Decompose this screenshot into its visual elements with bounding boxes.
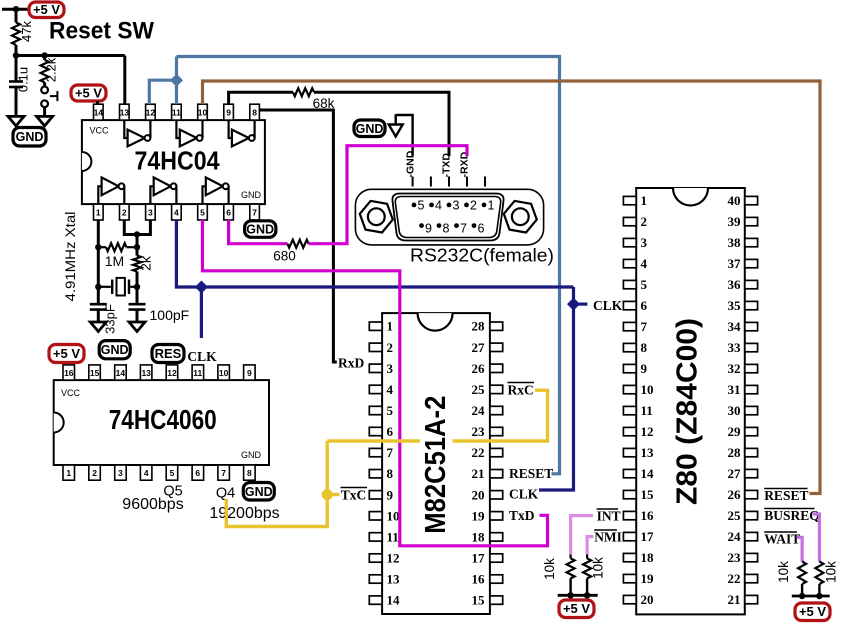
wire U1 pin1 down: [97, 220, 100, 304]
pin 6 U1 bottom: [224, 204, 234, 220]
ground GND label (U1 pin7): [245, 221, 276, 238]
pin 38 U4 right: [728, 235, 758, 250]
pin 3 U4 left: [623, 235, 647, 250]
ground triangle (33pF): [90, 322, 106, 332]
wire U1 pin8 to U3 RxD: [259, 110, 336, 362]
pin 13 U4 left: [623, 445, 654, 460]
pin 28 U3 right: [472, 319, 503, 334]
pin 20 U3 right: [472, 487, 503, 502]
pin 27 U4 right: [728, 466, 758, 481]
cpu U4 Z80 body: [636, 188, 745, 614]
svg-text:100pF: 100pF: [150, 307, 190, 323]
inverter U1F (5-6): [203, 177, 229, 204]
wire magenta U1 pin6 to 680: [229, 220, 288, 244]
text RESET (U4 pin26): [764, 488, 808, 503]
resistor 10k (INT): [542, 555, 575, 580]
wire 10k WAIT to +5V bar: [801, 584, 803, 596]
svg-text:9: 9: [247, 368, 252, 378]
svg-text:GND: GND: [245, 485, 273, 499]
pin 21 U4 right: [728, 592, 758, 607]
svg-text:1: 1: [66, 468, 71, 478]
pin 28 U4 right: [728, 445, 758, 460]
svg-text:+5 V: +5 V: [563, 601, 590, 616]
svg-text:9600bps: 9600bps: [122, 496, 183, 513]
svg-text:10: 10: [198, 108, 208, 118]
svg-text:7: 7: [641, 319, 648, 334]
connector J1 D-shell: [392, 194, 503, 241]
pin 4 U2 bottom: [140, 465, 152, 480]
svg-text:2: 2: [470, 199, 477, 213]
svg-text:5: 5: [641, 277, 648, 292]
wire clock osc (blue) U1 pin11 up: [175, 57, 178, 105]
pin 11 U1 top: [172, 104, 182, 120]
ground GND label (xtal caps): [99, 341, 130, 359]
svg-text:14: 14: [94, 108, 104, 118]
pin 16 U4 left: [623, 508, 654, 523]
connector J1 pin 1: [482, 199, 495, 213]
pin 10 U4 left: [623, 382, 653, 397]
text TxC (U3 pin9): [341, 488, 368, 503]
pin 26 U3 right: [472, 361, 503, 376]
text U1 VCC: [90, 126, 110, 136]
node pin1-xtal junction: [95, 284, 101, 290]
pin 8 U2 bottom: [244, 465, 256, 480]
svg-text:8: 8: [247, 468, 252, 478]
text RxC (U3 pin25): [508, 383, 535, 398]
power +5V label (U2 VCC): [49, 345, 84, 363]
svg-text:10: 10: [641, 382, 654, 397]
svg-text:21: 21: [472, 466, 485, 481]
svg-text:6: 6: [478, 222, 485, 236]
pin 15 U2 top: [89, 365, 101, 380]
pin 19 U3 right: [472, 508, 503, 523]
wire 100pF to gnd: [136, 310, 139, 322]
pin 14 U1 top: [94, 104, 104, 120]
pin 5 U2 bottom: [166, 465, 178, 480]
svg-text:37: 37: [728, 256, 742, 271]
svg-text:+5 V: +5 V: [75, 86, 102, 101]
svg-text:11: 11: [387, 529, 399, 544]
text CLK (U4 pin6): [593, 298, 623, 313]
node NMI bar junction: [584, 592, 590, 598]
connector J1 pin 2: [464, 199, 477, 213]
pin 7 U4 left: [623, 319, 647, 334]
svg-text:9: 9: [387, 487, 394, 502]
connector J1 outer shell: [355, 189, 543, 245]
svg-text:8: 8: [387, 466, 394, 481]
pin 1 U3 left: [369, 319, 393, 334]
svg-text:19200bps: 19200bps: [209, 505, 279, 522]
svg-text:24: 24: [472, 403, 486, 418]
svg-text:-TXD: -TXD: [441, 153, 453, 178]
wire brown U1 pin10 to U4 RESET: [203, 81, 821, 494]
text RxD (U3 pin3): [338, 356, 364, 371]
svg-text:RESET: RESET: [509, 466, 553, 481]
pin 11 U2 top: [192, 365, 204, 380]
svg-text:6: 6: [387, 424, 394, 439]
svg-text:19: 19: [472, 508, 486, 523]
pin 22 U3 right: [472, 445, 503, 460]
svg-text:31: 31: [728, 382, 741, 397]
svg-text:CLK: CLK: [593, 298, 623, 313]
inverter U1E (3-4): [150, 177, 176, 204]
svg-text:39: 39: [728, 214, 742, 229]
wire clock osc output (blue) U1 pin12: [149, 80, 176, 104]
pin 6 U4 left: [623, 298, 647, 313]
svg-text:27: 27: [728, 466, 742, 481]
svg-text:20: 20: [641, 592, 654, 607]
svg-text:7: 7: [252, 208, 257, 218]
pin 26 U4 right: [728, 487, 758, 502]
svg-text:GND: GND: [101, 343, 129, 357]
inverter U1C (9-8): [229, 120, 255, 146]
pin 9 U3 left: [369, 487, 393, 502]
pin 2 U3 left: [369, 340, 393, 355]
pin 7 U2 bottom: [218, 465, 230, 480]
wire 33pF to gnd: [97, 310, 100, 322]
svg-text:3: 3: [387, 361, 394, 376]
svg-text:27: 27: [472, 340, 486, 355]
node WAIT bar junction: [799, 593, 805, 599]
svg-text:4: 4: [387, 382, 394, 397]
svg-text:9: 9: [425, 222, 432, 236]
text TxD (U3 pin19): [509, 508, 535, 523]
svg-text:22: 22: [472, 445, 485, 460]
pin 4 U4 left: [623, 256, 647, 271]
connector J1 tick x449: [448, 177, 450, 187]
counter U2 74HC4060 body: [54, 380, 269, 465]
pin 6 U3 left: [369, 424, 393, 439]
pin 23 U4 right: [728, 550, 758, 565]
wire 100pF top lead: [136, 287, 139, 304]
pin 12 U3 left: [369, 551, 399, 566]
svg-text:10: 10: [219, 368, 229, 378]
svg-text:0.1u: 0.1u: [16, 67, 31, 92]
wire pink U4 NMI pullup: [587, 537, 593, 555]
connector J1 pin 7: [454, 222, 467, 236]
node pin1-1M junction: [95, 244, 101, 250]
pin 9 U2 top: [244, 365, 256, 380]
svg-text:GND: GND: [16, 130, 44, 144]
wire violet U4 BUSREQ pullup: [813, 514, 819, 562]
svg-text:4.91MHz Xtal: 4.91MHz Xtal: [63, 212, 78, 302]
pin 8 U4 left: [623, 340, 647, 355]
resistor 10k (NMI): [583, 555, 605, 579]
svg-text:NMI: NMI: [594, 530, 622, 545]
svg-text:35: 35: [728, 298, 742, 313]
pin 25 U4 right: [728, 508, 758, 523]
svg-text:20: 20: [472, 487, 485, 502]
svg-text:12: 12: [167, 368, 177, 378]
svg-text:1: 1: [96, 208, 101, 218]
svg-text:4: 4: [144, 468, 149, 478]
pin 1 U1 bottom: [94, 204, 104, 220]
pin 13 U1 top: [120, 104, 130, 120]
pin 18 U3 right: [472, 529, 503, 544]
pin 24 U4 right: [728, 529, 758, 544]
pin 5 U3 left: [369, 403, 393, 418]
svg-text:CLK: CLK: [187, 349, 217, 364]
pin 31 U4 right: [728, 382, 758, 397]
svg-text:12: 12: [146, 108, 156, 118]
svg-text:+5 V: +5 V: [53, 346, 80, 361]
svg-text:8: 8: [443, 222, 450, 236]
connector J1 tick x485: [484, 177, 486, 187]
svg-text:GND: GND: [241, 450, 262, 460]
svg-text:10: 10: [387, 508, 400, 523]
ground triangle (100pF): [129, 322, 145, 332]
svg-text:29: 29: [728, 424, 742, 439]
svg-text:TxC: TxC: [341, 488, 367, 503]
svg-text:10k: 10k: [776, 561, 791, 583]
svg-text:4: 4: [435, 199, 442, 213]
resistor 1M: [98, 243, 137, 269]
wire navy to U2 CLK: [200, 287, 203, 338]
svg-text:7: 7: [387, 445, 394, 460]
wire yellow stub to U3 TxC: [327, 493, 339, 496]
wire navy CLK from U1 pin4: [176, 220, 573, 287]
node pin2/3 junction: [134, 231, 140, 237]
pin 20 U4 left: [623, 592, 653, 607]
pin 5 U4 left: [623, 277, 647, 292]
wire reset to 74HC04 pin13: [123, 56, 126, 105]
label RES (U2 reset): [152, 345, 184, 363]
wire yellow to U3 RxC (right seg): [453, 390, 548, 441]
wire violet U4 WAIT pullup: [797, 537, 803, 561]
node yellow junction TxC: [322, 489, 333, 500]
svg-text:9: 9: [641, 361, 648, 376]
svg-text:13: 13: [387, 572, 401, 587]
svg-text:12: 12: [641, 424, 654, 439]
text Q4 label: [216, 486, 235, 502]
svg-text:+5 V: +5 V: [33, 2, 60, 17]
svg-text:7: 7: [460, 222, 467, 236]
text Reset SW: [49, 18, 154, 45]
resistor 68k: [293, 88, 335, 111]
svg-text:CLK: CLK: [509, 487, 539, 502]
pin 1 U2 bottom: [63, 465, 75, 480]
svg-text:21: 21: [728, 592, 741, 607]
wire 47k bottom lead: [15, 45, 18, 56]
wire 47k top lead: [15, 9, 18, 22]
connector J1 left screw nut: [360, 201, 393, 233]
svg-text:22: 22: [728, 571, 741, 586]
pin 9 U4 left: [623, 361, 647, 376]
svg-text:RxD: RxD: [338, 356, 364, 371]
wire yellow to U3 RxC (left seg): [327, 439, 420, 442]
connector J1 pin 3: [447, 199, 460, 213]
svg-text:5: 5: [387, 403, 394, 418]
wire U1 pin9 to 68k to J1 TXD: [229, 92, 293, 104]
svg-text:4: 4: [641, 256, 648, 271]
wire blue to U3 RESET: [177, 57, 560, 474]
connector J1 tick x412: [412, 177, 414, 187]
text U2 GND: [241, 450, 262, 460]
power +5V label (WAIT/BUSREQ pullups): [795, 603, 830, 621]
node top-left junction: [13, 6, 19, 12]
wire switch to gnd: [43, 107, 46, 116]
wire pink U4 INT pullup: [571, 516, 593, 555]
svg-text:14: 14: [387, 593, 401, 608]
pin 40 U4 right: [728, 193, 758, 208]
wire +5V top rail: [2, 8, 29, 11]
pin 11 U3 left: [369, 529, 398, 544]
node navy junction (4060 clk): [195, 281, 208, 294]
svg-text:15: 15: [472, 593, 486, 608]
pin 7 U3 left: [369, 445, 393, 460]
wire 0.1u bottom lead: [15, 87, 18, 116]
pin 23 U3 right: [472, 424, 503, 439]
inverter U1B (11-10): [176, 120, 202, 146]
pin 15 U4 left: [623, 487, 654, 502]
pin 9 U1 top: [224, 104, 234, 120]
ground GND label (reset circuit): [13, 128, 46, 147]
connector J1 tick x430: [430, 177, 432, 187]
pin 39 U4 right: [728, 214, 758, 229]
pin 12 U4 left: [623, 424, 653, 439]
pin 30 U4 right: [728, 403, 758, 418]
svg-text:WAIT: WAIT: [764, 532, 800, 547]
node reset RC junction: [13, 52, 19, 58]
svg-text:-GND: -GND: [405, 150, 417, 177]
pin 18 U4 left: [623, 550, 654, 565]
pin 11 U4 left: [623, 403, 652, 418]
node INT bar junction: [567, 592, 573, 598]
svg-text:19: 19: [641, 571, 655, 586]
pin 37 U4 right: [728, 256, 758, 271]
connector J1 pin 4: [429, 199, 442, 213]
svg-text:5: 5: [418, 199, 425, 213]
text 4.91MHz Xtal: [63, 212, 78, 302]
svg-text:32: 32: [728, 361, 741, 376]
svg-text:16: 16: [641, 508, 655, 523]
svg-text:1M: 1M: [105, 253, 124, 269]
wire navy down to U3 CLK: [539, 287, 574, 490]
svg-text:8: 8: [641, 340, 648, 355]
svg-text:2.2k: 2.2k: [44, 57, 59, 82]
text INT (U4 pin16): [597, 509, 621, 524]
text CLK (U3 pin20): [509, 487, 539, 502]
wire 10k NMI to +5V bar: [586, 578, 588, 595]
svg-text:23: 23: [728, 550, 742, 565]
svg-text:2: 2: [122, 208, 127, 218]
pin 6 U2 bottom: [192, 465, 204, 480]
pin 21 U3 right: [472, 466, 503, 481]
node navy junction (Z80 clk): [567, 298, 580, 311]
svg-text:RES: RES: [155, 346, 182, 361]
svg-text:74HC4060: 74HC4060: [109, 404, 217, 435]
power +5V label (INT/NMI pullups): [559, 600, 594, 618]
svg-text:24: 24: [728, 529, 742, 544]
resistor 2.2k: [41, 57, 59, 82]
text U4 name Z80 (Z84C00): [672, 318, 704, 505]
text CLK (U2 clock in): [187, 349, 217, 364]
wire J1 gnd hook: [396, 115, 413, 156]
wire 2.2k top lead: [43, 56, 46, 60]
text -TXD rotated (J1 pin3): [441, 153, 453, 178]
svg-text:680: 680: [273, 249, 296, 264]
ground GND label (J1): [354, 120, 385, 137]
wire navy stub to U4 CLK: [574, 303, 588, 306]
svg-text:VCC: VCC: [61, 388, 81, 398]
svg-text:11: 11: [193, 368, 202, 378]
svg-text:2: 2: [387, 340, 394, 355]
svg-text:11: 11: [172, 108, 181, 118]
text U1 GND: [241, 190, 262, 200]
pin 1 U4 left: [623, 193, 647, 208]
svg-text:16: 16: [472, 572, 486, 587]
svg-text:2: 2: [92, 468, 97, 478]
svg-text:6: 6: [641, 298, 648, 313]
svg-text:3: 3: [148, 208, 153, 218]
wire yellow U2 Q4 to TxC: [226, 441, 327, 527]
text BUSREQ (U4 pin25): [764, 508, 820, 523]
connector J1 pin 5: [412, 199, 425, 213]
text WAIT (U4 pin24): [764, 532, 800, 547]
pin 12 U2 top: [166, 365, 178, 380]
text U2 VCC: [61, 388, 81, 398]
connector J1 pin 6: [472, 222, 485, 236]
text U2 name 74HC4060: [109, 404, 217, 435]
switch SW1 reset pushbutton: [41, 87, 57, 108]
pin 16 U3 right: [472, 572, 503, 587]
text U1 name 74HC04: [135, 146, 220, 176]
resistor 10k (WAIT): [776, 561, 806, 584]
wire +5V bar (WAIT/BUSREQ): [792, 595, 830, 598]
svg-text:3: 3: [641, 235, 648, 250]
svg-text:36: 36: [728, 277, 742, 292]
svg-text:Reset SW: Reset SW: [49, 18, 154, 45]
svg-text:3: 3: [453, 199, 460, 213]
svg-text:28: 28: [472, 319, 486, 334]
connector J1 pin 9: [419, 222, 432, 236]
inverter U1D (1-2): [98, 177, 124, 204]
svg-text:2: 2: [641, 214, 648, 229]
wire 2.2k to switch: [43, 82, 46, 86]
pin 15 U3 right: [472, 593, 503, 608]
pin 22 U4 right: [728, 571, 758, 586]
svg-text:4: 4: [174, 208, 179, 218]
svg-text:33: 33: [728, 340, 742, 355]
svg-text:1: 1: [641, 193, 648, 208]
svg-text:7: 7: [221, 468, 226, 478]
svg-text:30: 30: [728, 403, 741, 418]
pin 33 U4 right: [728, 340, 758, 355]
svg-text:1: 1: [488, 199, 495, 213]
ground GND label (U2 pin8): [243, 483, 274, 501]
pin 12 U1 top: [146, 104, 156, 120]
uart U3 M82C51A-2 body: [382, 313, 490, 614]
pin 10 U1 top: [198, 104, 208, 120]
wire magenta 680 to J1 RXD: [309, 146, 468, 244]
svg-text:18: 18: [641, 550, 655, 565]
node BUSREQ bar junction: [816, 593, 822, 599]
svg-text:1: 1: [387, 319, 394, 334]
pin 7 U1 bottom: [250, 204, 260, 220]
svg-text:M82C51A-2: M82C51A-2: [420, 396, 452, 534]
text U3 name M82C51A-2: [420, 396, 452, 534]
pin 2 U4 left: [623, 214, 647, 229]
pin 19 U4 left: [623, 571, 654, 586]
svg-text:5: 5: [200, 208, 205, 218]
wire +5V bar (INT/NMI): [558, 594, 598, 597]
svg-text:13: 13: [120, 108, 130, 118]
connector J1 pin 8: [437, 222, 450, 236]
svg-text:12: 12: [387, 551, 400, 566]
pin 32 U4 right: [728, 361, 758, 376]
pin 3 U3 left: [369, 361, 393, 376]
svg-text:18: 18: [472, 529, 486, 544]
